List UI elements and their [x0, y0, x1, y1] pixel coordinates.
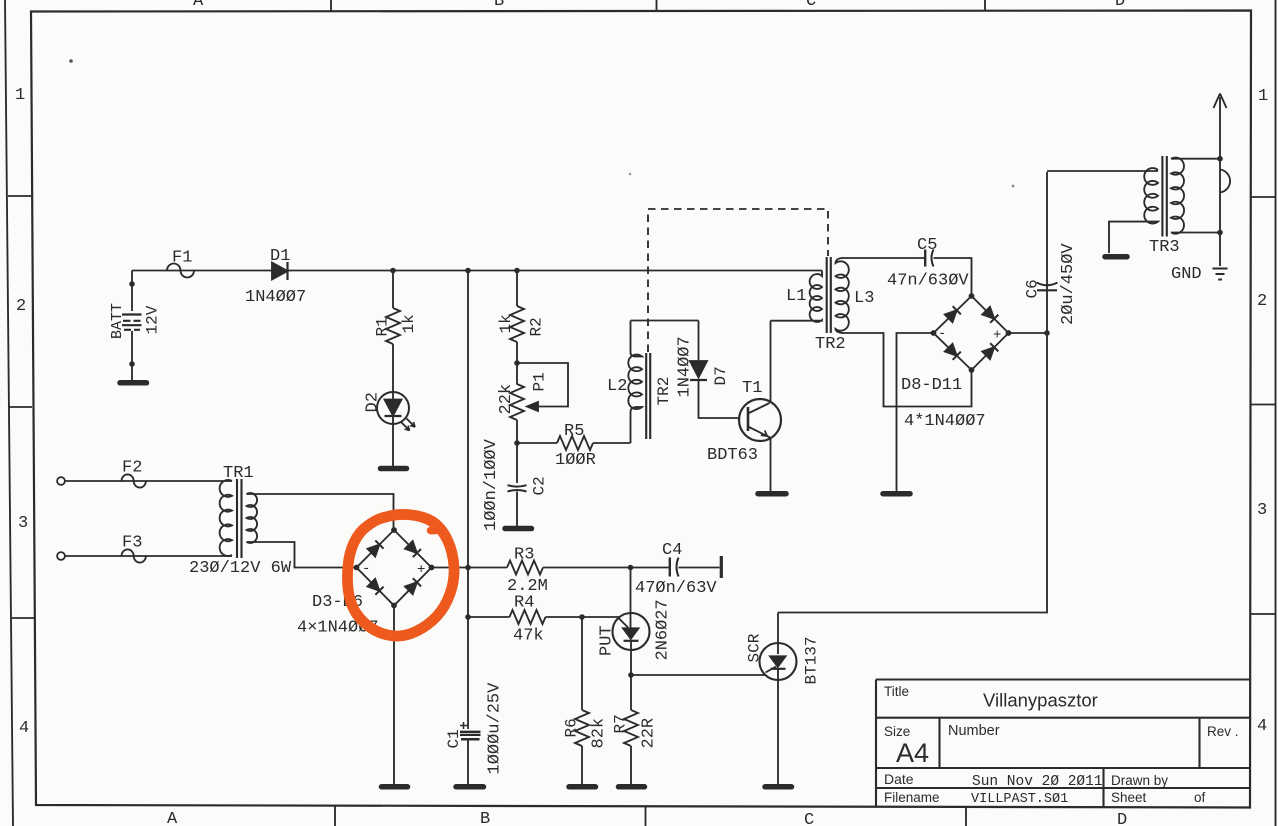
node R4 / R6 junction	[579, 614, 585, 620]
fuse F3 wire	[65, 555, 232, 557]
wire R4 row	[468, 616, 510, 618]
resistor R2 1k	[516, 271, 518, 307]
svg-text:2: 2	[16, 297, 26, 316]
border column tick top B/C	[656, 0, 658, 11]
scan speck	[69, 59, 73, 63]
svg-text:82k: 82k	[590, 718, 609, 749]
ground D2	[381, 466, 407, 472]
svg-text:D: D	[1117, 811, 1127, 826]
wire C1 rail vertical	[467, 271, 469, 730]
node bridge D8-D11 right	[1006, 330, 1012, 336]
svg-text:-: -	[938, 326, 946, 342]
svg-text:B: B	[480, 810, 490, 826]
border column tick bottom B/C	[645, 807, 647, 826]
wire TR1 secondary bottom to bridge	[247, 542, 357, 568]
svg-text:R5: R5	[564, 422, 584, 441]
node bridge D8-D11 left	[931, 330, 937, 336]
svg-text:4: 4	[19, 719, 29, 738]
svg-text:TR2: TR2	[815, 335, 846, 354]
svg-text:D1: D1	[270, 247, 290, 266]
svg-text:F3: F3	[122, 534, 142, 553]
svg-text:Number: Number	[948, 723, 1000, 739]
resistor R3 2.2M	[507, 561, 543, 575]
capacitor C2 100n/100V	[516, 443, 518, 483]
node rail R1	[390, 268, 396, 274]
wire C6 rail to TR3	[1047, 170, 1158, 172]
transformer TR1 secondary winding	[247, 493, 258, 543]
spark gap arc	[1220, 170, 1230, 193]
wire bridge minus to ground	[897, 333, 934, 491]
border column tick bottom C/D	[965, 807, 967, 826]
svg-text:A4: A4	[896, 738, 929, 768]
fuse F2 wire	[65, 480, 232, 482]
svg-text:C1: C1	[445, 729, 463, 748]
svg-text:P1: P1	[531, 372, 549, 391]
ground SCR	[765, 784, 792, 790]
capacitor C6 20u/450V	[1037, 283, 1058, 286]
capacitor C4 470n/63V	[669, 558, 671, 577]
title block outline	[876, 680, 1250, 807]
svg-text:47k: 47k	[513, 627, 544, 646]
svg-text:23Ø/12V 6W: 23Ø/12V 6W	[189, 559, 292, 578]
wire bridge plus to C6 rail	[1009, 332, 1048, 334]
resistor R1 1k	[392, 271, 394, 309]
SCR BT137	[760, 643, 797, 680]
border row tick left 2/3	[9, 406, 32, 408]
title block row line under Date	[876, 787, 1250, 789]
node bridge D3-D6 bottom	[391, 603, 397, 609]
svg-text:+: +	[993, 328, 1001, 344]
svg-text:Sun Nov 2Ø 2Ø11: Sun Nov 2Ø 2Ø11	[972, 774, 1103, 790]
node P1 bottom / R5 / C2	[514, 440, 520, 446]
wire bridge D3-D6 bottom to ground	[393, 606, 395, 785]
svg-text:C6: C6	[1024, 279, 1042, 298]
node bridge D8-D11 top	[969, 293, 975, 299]
svg-text:1: 1	[15, 86, 25, 105]
svg-text:Drawn by: Drawn by	[1111, 773, 1168, 788]
fuse F2	[122, 474, 146, 487]
terminal bar after C4	[720, 556, 723, 578]
title block divider Size|Number	[938, 718, 940, 768]
arrow output up	[1214, 94, 1227, 109]
diode D5 (bottom-left edge)	[367, 579, 383, 595]
wire TR1 secondary top to bridge	[247, 494, 394, 530]
svg-text:F2: F2	[122, 459, 142, 478]
ground R7	[619, 784, 645, 790]
transformer TR1 primary winding	[220, 480, 232, 556]
transformer TR1 core	[237, 479, 242, 558]
node C6 rail plus	[1044, 330, 1050, 336]
svg-text:D2: D2	[364, 392, 383, 412]
svg-text:C: C	[806, 0, 816, 11]
node bridge D8-D11 bottom	[969, 367, 975, 373]
svg-text:1N4ØØ7: 1N4ØØ7	[245, 288, 306, 307]
svg-text:1: 1	[1258, 87, 1268, 106]
annotation orange circle around D3-D6	[347, 514, 454, 636]
node TR3 output bottom	[1217, 230, 1223, 236]
fuse F1	[167, 264, 194, 278]
svg-text:GND: GND	[1171, 265, 1202, 284]
LED D2 arrows	[401, 419, 415, 431]
transistor T1 BDT63	[739, 399, 781, 441]
transformer TR3 left winding	[1109, 168, 1158, 253]
svg-text:VILLPAST.SØ1: VILLPAST.SØ1	[971, 792, 1068, 807]
svg-text:C5: C5	[917, 236, 937, 255]
svg-text:D7: D7	[712, 366, 730, 385]
title block divider Date|Drawn by	[1102, 768, 1104, 807]
transformer TR2 core	[827, 257, 831, 333]
svg-text:1k: 1k	[497, 314, 515, 333]
border row tick left 1/2	[8, 195, 31, 197]
diode D4 (top-right edge)	[405, 541, 421, 557]
svg-text:R7: R7	[612, 714, 630, 733]
svg-text:A: A	[193, 0, 204, 11]
wire L2 top to D7	[631, 320, 699, 322]
battery BATT 12V	[122, 315, 142, 330]
svg-text:D8-D11: D8-D11	[901, 376, 962, 395]
svg-text:Title: Title	[884, 684, 909, 699]
resistor R7 22R	[630, 675, 632, 710]
node TR3 output top	[1217, 156, 1223, 162]
svg-text:C4: C4	[662, 541, 682, 560]
ground T1 emitter	[758, 491, 786, 497]
svg-text:R4: R4	[514, 594, 534, 613]
diode D6 (bottom-right edge)	[405, 578, 421, 594]
wire main top rail	[132, 270, 822, 272]
wire output vertical	[1219, 97, 1221, 266]
svg-text:L2: L2	[607, 377, 627, 396]
border column tick bottom A/B	[334, 806, 336, 826]
ground C1	[456, 784, 484, 790]
terminal F3	[57, 552, 65, 560]
svg-text:BT137: BT137	[803, 636, 821, 684]
svg-text:2N6Ø27: 2N6Ø27	[654, 599, 673, 660]
resistor R6 82k	[581, 617, 583, 710]
svg-text:12V: 12V	[144, 305, 162, 334]
svg-text:47Øn/63V: 47Øn/63V	[635, 579, 717, 598]
node bridge D3-D6 top	[391, 527, 397, 533]
ground R6	[569, 784, 596, 790]
inductor L2 winding	[628, 321, 642, 444]
svg-text:TR3: TR3	[1149, 238, 1180, 257]
resistor R5 100R	[517, 442, 557, 444]
diode D3 (top-left edge)	[367, 540, 383, 556]
border frame outer right line	[1275, 0, 1277, 826]
svg-text:Rev .: Rev .	[1207, 724, 1239, 739]
svg-text:BDT63: BDT63	[707, 446, 758, 465]
border row tick left 3/4	[11, 617, 35, 619]
resistor R4 47k	[510, 610, 546, 624]
node battery bottom	[129, 361, 135, 367]
svg-text:R6: R6	[563, 718, 581, 737]
svg-text:1ØØR: 1ØØR	[555, 451, 596, 470]
potentiometer P1 22k	[510, 384, 524, 420]
svg-text:Filename: Filename	[884, 790, 940, 805]
wire battery top	[131, 271, 133, 312]
svg-text:Sheet: Sheet	[1111, 790, 1147, 805]
node battery top	[129, 281, 135, 287]
svg-text:B: B	[494, 0, 504, 11]
svg-text:-: -	[362, 561, 370, 577]
title block row line under Size/Number/Rev	[876, 767, 1250, 769]
svg-text:TR1: TR1	[223, 464, 254, 483]
ground bridge D3-D6	[382, 784, 408, 790]
svg-text:22R: 22R	[640, 718, 659, 749]
diode D10 (bottom-left edge)	[945, 344, 961, 360]
svg-text:3: 3	[18, 514, 28, 533]
svg-text:SCR: SCR	[746, 633, 764, 662]
border row tick right 2/3	[1250, 404, 1276, 406]
diode D8 (top-left edge)	[945, 306, 961, 322]
wire TR3 secondary bottom	[1171, 232, 1220, 234]
svg-text:PUT: PUT	[598, 625, 617, 656]
ground bridge D8-D11	[883, 491, 910, 497]
node rail C1-rail	[465, 268, 471, 274]
svg-text:Size: Size	[884, 724, 910, 739]
bridge rectifier D3-D6 diamond	[357, 530, 432, 606]
capacitor C5 47n/630V	[924, 250, 926, 267]
wire SCR anode to C6 rail	[778, 172, 1047, 613]
wire L3 top to C5	[842, 257, 925, 259]
diode D11 (bottom-right edge)	[982, 343, 998, 359]
wire battery bottom	[131, 331, 133, 380]
svg-text:C2: C2	[531, 476, 549, 495]
fuse F3	[122, 549, 146, 562]
node P1 top	[514, 360, 520, 366]
svg-text:D: D	[1115, 0, 1125, 11]
border row tick right 1/2	[1251, 196, 1276, 198]
svg-text:Date: Date	[884, 771, 914, 787]
transformer TR2 L1 winding	[771, 271, 823, 322]
svg-text:R1: R1	[374, 317, 392, 336]
svg-text:TR2: TR2	[655, 377, 673, 406]
diode D1 1N4007	[272, 263, 288, 280]
transformer TR2 L3 winding	[836, 258, 849, 333]
svg-text:L1: L1	[786, 287, 806, 306]
svg-text:R3: R3	[514, 546, 534, 565]
wire SCR gate	[631, 674, 765, 676]
core TR2 (L2 side)	[646, 353, 650, 439]
title block divider Number|Rev	[1198, 718, 1200, 768]
capacitor C1 1000u/25V	[460, 731, 481, 733]
ground C2	[505, 526, 532, 532]
earth ground GND	[1213, 269, 1228, 280]
LED D2	[377, 392, 409, 424]
svg-text:47n/63ØV: 47n/63ØV	[887, 272, 969, 291]
title block row line under Title	[876, 717, 1250, 719]
border column tick top C/D	[984, 0, 986, 11]
PUT 2N6027	[613, 613, 650, 650]
diode D9 (top-right edge)	[982, 307, 998, 323]
node PUT cathode / R7 / SCR gate	[628, 672, 634, 678]
dashed coupling box TR2	[648, 209, 828, 352]
border row tick right 3/4	[1250, 613, 1276, 615]
svg-text:BATT: BATT	[109, 303, 126, 339]
svg-text:1ØØn/1ØØV: 1ØØn/1ØØV	[482, 438, 501, 531]
transformer TR3 right winding	[1171, 158, 1184, 234]
svg-text:F1: F1	[172, 249, 192, 268]
svg-text:R2: R2	[528, 317, 546, 336]
node rail R2	[514, 268, 520, 274]
svg-text:L3: L3	[854, 289, 874, 308]
svg-text:4: 4	[1257, 717, 1267, 736]
diode D7 1N4007	[698, 321, 700, 362]
wire L3 bottom to bridge AC	[842, 333, 972, 407]
scan speck	[629, 173, 632, 176]
ground TR3	[1105, 254, 1127, 260]
svg-text:of: of	[1194, 790, 1206, 805]
node bridge D3-D6 left	[354, 565, 360, 571]
svg-text:Villanypasztor: Villanypasztor	[983, 690, 1098, 711]
border frame outer left line	[5, 0, 13, 826]
wire TR3 secondary top	[1171, 158, 1220, 160]
transformer TR3 core	[1162, 156, 1166, 237]
svg-text:2Øu/45ØV: 2Øu/45ØV	[1059, 243, 1078, 325]
svg-text:1N4ØØ7: 1N4ØØ7	[676, 336, 695, 397]
wire R3 row	[432, 567, 508, 569]
svg-text:3: 3	[1257, 501, 1267, 520]
terminal F2	[57, 477, 65, 485]
svg-text:A: A	[167, 810, 178, 826]
svg-text:+: +	[417, 562, 425, 578]
node C4 / PUT anode	[628, 565, 634, 571]
svg-text:22k: 22k	[497, 384, 516, 415]
svg-text:2: 2	[1257, 292, 1267, 311]
svg-text:4*1N4ØØ7: 4*1N4ØØ7	[904, 412, 986, 431]
svg-text:1ØØØu/25V: 1ØØØu/25V	[486, 682, 505, 775]
border column tick top A/B	[330, 0, 332, 11]
node C1 rail R4 row	[465, 614, 471, 620]
scan speck	[1012, 185, 1015, 188]
ground battery	[120, 380, 147, 386]
bridge rectifier D8-D11 diamond	[934, 296, 1009, 370]
svg-text:C: C	[804, 811, 814, 826]
svg-text:1k: 1k	[400, 314, 418, 333]
svg-text:T1: T1	[742, 379, 762, 398]
node C1 rail R3 row	[465, 565, 471, 571]
node bridge D3-D6 right	[429, 565, 435, 571]
